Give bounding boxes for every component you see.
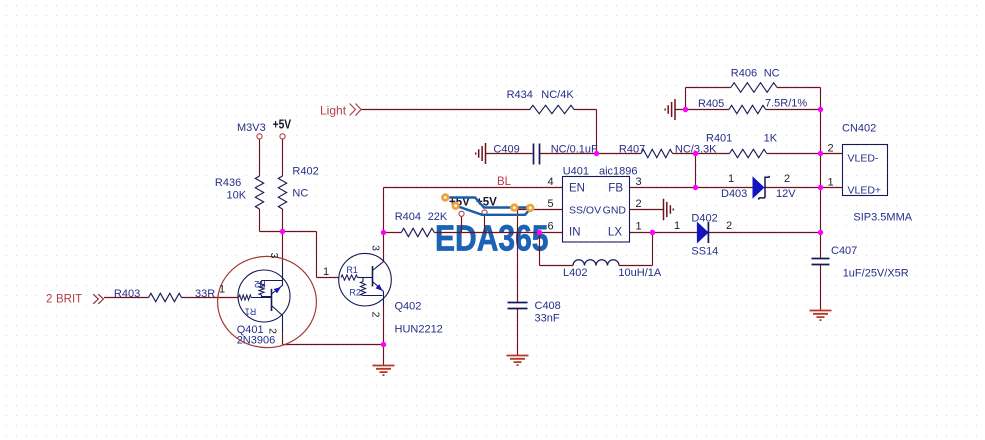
svg-text:R403: R403	[114, 288, 140, 300]
svg-text:33nF: 33nF	[535, 313, 560, 325]
svg-text:NC/4K: NC/4K	[541, 89, 574, 101]
svg-text:1: 1	[827, 177, 833, 189]
svg-text:R407: R407	[619, 144, 645, 156]
svg-text:NC: NC	[292, 188, 308, 200]
svg-text:M3V3: M3V3	[237, 122, 266, 134]
svg-text:2: 2	[370, 312, 382, 318]
svg-text:C408: C408	[535, 300, 561, 312]
svg-text:3: 3	[268, 253, 280, 259]
svg-text:1: 1	[674, 220, 680, 232]
svg-text:1K: 1K	[764, 133, 778, 145]
svg-text:2: 2	[784, 173, 790, 185]
svg-text:C407: C407	[831, 245, 857, 257]
svg-text:SS/OV: SS/OV	[569, 205, 601, 217]
svg-text:L402: L402	[563, 267, 587, 279]
svg-text:R401: R401	[706, 133, 732, 145]
svg-text:R404: R404	[395, 211, 421, 223]
svg-text:R405: R405	[698, 98, 724, 110]
svg-text:2: 2	[46, 294, 52, 306]
svg-text:NC: NC	[764, 68, 780, 80]
svg-text:10uH/1A: 10uH/1A	[618, 267, 661, 279]
svg-text:Light: Light	[320, 104, 347, 118]
svg-text:10K: 10K	[227, 190, 247, 202]
svg-text:2N3906: 2N3906	[237, 335, 276, 347]
svg-text:4: 4	[547, 176, 553, 188]
svg-text:2: 2	[635, 198, 641, 210]
svg-text:1: 1	[635, 220, 641, 232]
svg-text:aic1896: aic1896	[599, 166, 638, 178]
svg-text:2: 2	[827, 143, 833, 155]
svg-text:Q402: Q402	[395, 301, 422, 313]
svg-text:EDA365: EDA365	[435, 218, 549, 259]
svg-text:R434: R434	[507, 89, 533, 101]
svg-text:6: 6	[547, 220, 553, 232]
svg-text:NC/0.1uF: NC/0.1uF	[551, 144, 598, 156]
svg-text:R1: R1	[346, 265, 358, 275]
svg-text:1: 1	[219, 284, 225, 296]
svg-text:D403: D403	[721, 188, 747, 200]
svg-text:LX: LX	[608, 227, 622, 239]
svg-text:1: 1	[323, 266, 329, 278]
svg-text:VLED-: VLED-	[848, 153, 879, 165]
svg-text:BRIT: BRIT	[56, 294, 82, 306]
svg-text:2: 2	[267, 328, 279, 334]
svg-text:1uF/25V/X5R: 1uF/25V/X5R	[843, 268, 909, 280]
svg-text:R436: R436	[215, 177, 241, 189]
svg-text:BL: BL	[497, 176, 512, 188]
svg-text:1: 1	[728, 173, 734, 185]
svg-text:SS14: SS14	[691, 246, 718, 258]
svg-text:EN: EN	[569, 183, 585, 195]
svg-text:R2: R2	[349, 288, 361, 298]
svg-text:22K: 22K	[428, 211, 448, 223]
svg-text:R2: R2	[254, 279, 266, 289]
svg-text:IN: IN	[569, 227, 581, 239]
svg-text:3: 3	[635, 176, 641, 188]
svg-text:VLED+: VLED+	[848, 185, 882, 197]
svg-text:R1: R1	[245, 307, 257, 317]
svg-text:+5V: +5V	[273, 117, 292, 132]
svg-text:U401: U401	[563, 166, 589, 178]
svg-text:R402: R402	[292, 166, 318, 178]
svg-text:GND: GND	[603, 205, 627, 217]
svg-text:2: 2	[726, 220, 732, 232]
svg-text:D402: D402	[691, 213, 717, 225]
svg-text:5: 5	[547, 198, 553, 210]
svg-text:33R: 33R	[195, 288, 215, 300]
svg-text:R406: R406	[731, 68, 757, 80]
svg-text:FB: FB	[608, 183, 623, 195]
svg-text:HUN2212: HUN2212	[395, 324, 443, 336]
svg-text:C409: C409	[493, 144, 519, 156]
svg-text:SIP3.5MMA: SIP3.5MMA	[853, 212, 912, 224]
svg-text:12V: 12V	[776, 188, 796, 200]
svg-text:CN402: CN402	[842, 123, 876, 135]
svg-text:3: 3	[370, 245, 382, 251]
svg-text:7.5R/1%: 7.5R/1%	[765, 98, 807, 110]
